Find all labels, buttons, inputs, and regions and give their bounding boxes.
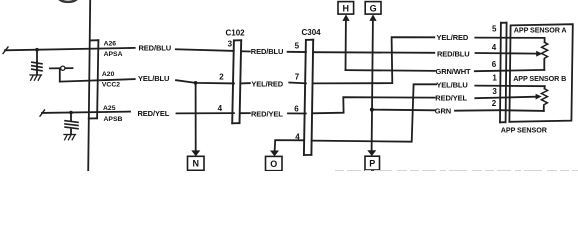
- svg-text:APP SENSOR A: APP SENSOR A: [514, 26, 567, 35]
- svg-text:4: 4: [218, 104, 223, 113]
- svg-text:YEL/BLU: YEL/BLU: [138, 74, 169, 83]
- svg-text:6: 6: [294, 104, 299, 113]
- svg-text:GRN/WHT: GRN/WHT: [436, 67, 472, 76]
- svg-text:APP SENSOR: APP SENSOR: [501, 126, 548, 135]
- svg-text:1: 1: [492, 74, 497, 83]
- svg-text:C102: C102: [226, 28, 246, 37]
- svg-text:5: 5: [295, 41, 300, 50]
- svg-text:4: 4: [492, 43, 497, 52]
- svg-text:YEL/RED: YEL/RED: [251, 79, 283, 88]
- svg-text:G: G: [370, 3, 377, 13]
- svg-text:GRN: GRN: [435, 107, 451, 116]
- svg-text:3: 3: [492, 87, 497, 96]
- svg-text:APSA: APSA: [104, 51, 123, 58]
- svg-text:RED/BLU: RED/BLU: [139, 43, 172, 52]
- svg-text:RED/BLU: RED/BLU: [251, 47, 283, 56]
- svg-text:2: 2: [492, 99, 497, 108]
- svg-text:O: O: [270, 159, 277, 169]
- svg-text:5: 5: [492, 25, 497, 34]
- svg-text:APP SENSOR B: APP SENSOR B: [513, 74, 566, 83]
- svg-text:A25: A25: [103, 105, 116, 112]
- svg-text:RED/YEL: RED/YEL: [138, 109, 170, 118]
- svg-text:3: 3: [228, 39, 233, 48]
- svg-text:VCC2: VCC2: [102, 82, 120, 89]
- svg-text:4: 4: [295, 132, 300, 141]
- svg-text:N: N: [192, 159, 199, 169]
- svg-text:2: 2: [219, 72, 224, 81]
- svg-text:APSB: APSB: [104, 116, 123, 123]
- svg-text:P: P: [369, 158, 375, 168]
- svg-text:RED/BLU: RED/BLU: [437, 49, 470, 58]
- svg-text:A20: A20: [102, 71, 115, 78]
- svg-text:A26: A26: [104, 41, 117, 48]
- svg-text:YEL/BLU: YEL/BLU: [436, 80, 467, 89]
- svg-text:RED/YEL: RED/YEL: [435, 94, 467, 103]
- svg-text:YEL/RED: YEL/RED: [437, 33, 469, 42]
- svg-text:RED/YEL: RED/YEL: [251, 109, 283, 118]
- svg-text:6: 6: [492, 60, 497, 69]
- svg-text:7: 7: [295, 73, 300, 82]
- svg-text:H: H: [343, 3, 350, 13]
- svg-text:C304: C304: [302, 28, 322, 37]
